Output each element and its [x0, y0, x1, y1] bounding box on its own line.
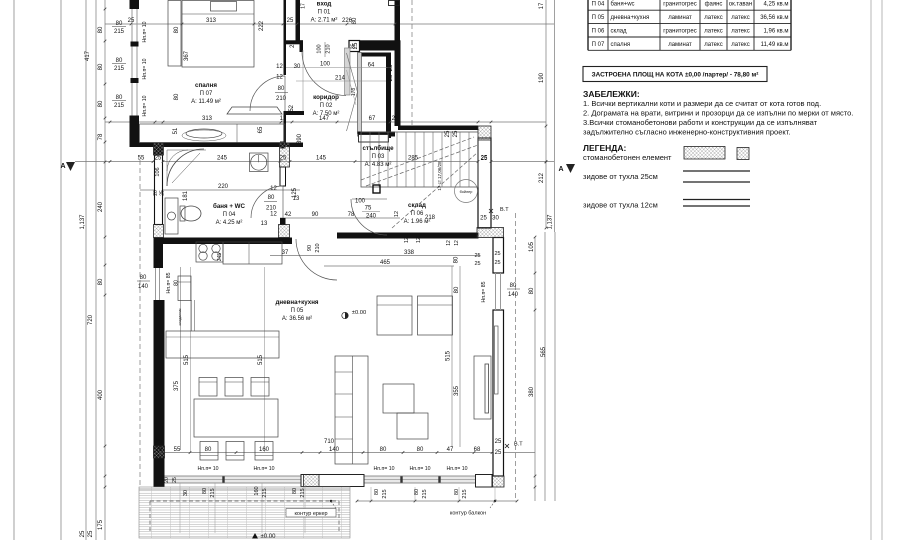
svg-text:215: 215 — [210, 488, 216, 497]
svg-text:3.Всички стоманобетонови работ: 3.Всички стоманобетонови работи и констр… — [583, 118, 818, 127]
svg-text:1,137: 1,137 — [548, 214, 554, 230]
svg-text:25: 25 — [474, 253, 480, 259]
svg-text:218: 218 — [425, 215, 436, 221]
svg-text:25: 25 — [156, 439, 163, 445]
svg-text:80: 80 — [454, 286, 460, 293]
svg-text:78: 78 — [98, 133, 104, 140]
svg-text:П 01: П 01 — [318, 10, 331, 16]
svg-text:2. Дограмата на врати, витрини: 2. Дограмата на врати, витрини и прозорц… — [583, 109, 853, 118]
svg-text:дневна+кухня: дневна+кухня — [275, 299, 318, 306]
svg-text:П 06: П 06 — [592, 29, 605, 35]
svg-text:П 02: П 02 — [320, 103, 333, 109]
svg-text:175: 175 — [98, 519, 104, 530]
svg-text:210: 210 — [326, 44, 332, 53]
svg-text:А: 4.83 м²: А: 4.83 м² — [365, 162, 392, 168]
svg-text:А: 4.25 м²: А: 4.25 м² — [216, 220, 243, 226]
svg-text:55: 55 — [174, 447, 181, 453]
svg-text:контур еркер: контур еркер — [294, 511, 327, 517]
svg-text:12: 12 — [276, 64, 283, 70]
svg-text:80: 80 — [374, 489, 380, 495]
svg-text:80: 80 — [98, 100, 104, 107]
svg-text:зидове от тухла 12см: зидове от тухла 12см — [583, 201, 658, 210]
svg-text:80: 80 — [174, 280, 180, 286]
svg-text:Нп.п= 10: Нп.п= 10 — [409, 466, 430, 472]
svg-text:25: 25 — [160, 190, 166, 196]
svg-text:25: 25 — [453, 130, 459, 137]
svg-text:215: 215 — [114, 29, 125, 35]
svg-text:140: 140 — [138, 284, 149, 290]
svg-text:36,56 кв.м: 36,56 кв.м — [760, 15, 788, 21]
svg-text:565: 565 — [541, 346, 547, 357]
svg-text:Нп.п= 10: Нп.п= 10 — [142, 58, 148, 79]
svg-text:100: 100 — [320, 62, 331, 68]
svg-text:20: 20 — [153, 190, 159, 196]
svg-text:47: 47 — [447, 447, 454, 453]
svg-text:25: 25 — [480, 216, 487, 222]
svg-text:гранитогрес: гранитогрес — [663, 2, 696, 8]
svg-text:515: 515 — [184, 354, 190, 365]
svg-text:140: 140 — [329, 447, 340, 453]
svg-text:ламинат: ламинат — [668, 15, 692, 21]
svg-text:720: 720 — [88, 314, 94, 325]
svg-text:80: 80 — [417, 447, 424, 453]
svg-text:51: 51 — [173, 127, 179, 134]
svg-text:гранитогрес: гранитогрес — [663, 29, 696, 35]
svg-text:стълбище: стълбище — [362, 145, 394, 152]
svg-text:90: 90 — [307, 245, 313, 251]
svg-text:100: 100 — [355, 199, 366, 205]
svg-text:П 04: П 04 — [223, 212, 236, 218]
svg-text:вход: вход — [317, 1, 332, 8]
svg-text:25: 25 — [155, 156, 162, 162]
svg-text:спалня: спалня — [195, 82, 217, 89]
svg-text:65: 65 — [258, 126, 264, 133]
svg-text:80: 80 — [414, 489, 420, 495]
svg-text:25: 25 — [494, 251, 500, 257]
svg-text:710: 710 — [324, 439, 335, 445]
svg-text:80: 80 — [116, 21, 123, 27]
svg-text:160: 160 — [254, 486, 260, 495]
svg-text:13: 13 — [261, 221, 268, 227]
svg-text:313: 313 — [206, 18, 217, 24]
svg-text:25: 25 — [80, 530, 86, 537]
svg-text:390: 390 — [297, 133, 303, 144]
svg-text:400: 400 — [98, 389, 104, 400]
svg-text:210: 210 — [276, 96, 287, 102]
svg-text:355: 355 — [454, 385, 460, 396]
svg-text:80: 80 — [510, 283, 517, 289]
svg-text:12: 12 — [404, 237, 410, 243]
svg-text:17: 17 — [539, 2, 545, 9]
svg-text:37: 37 — [282, 250, 289, 256]
svg-text:215: 215 — [262, 488, 268, 497]
svg-text:181: 181 — [183, 190, 189, 201]
svg-text:178: 178 — [351, 88, 357, 97]
svg-text:25: 25 — [494, 260, 500, 266]
svg-text:A: A — [60, 163, 65, 170]
svg-text:80: 80 — [116, 58, 123, 64]
svg-text:80: 80 — [529, 287, 535, 294]
svg-text:215: 215 — [382, 489, 388, 498]
svg-text:80: 80 — [454, 256, 460, 263]
svg-text:214: 214 — [335, 76, 346, 82]
svg-text:12: 12 — [454, 240, 460, 246]
svg-text:дневна+кухня: дневна+кухня — [611, 15, 650, 21]
svg-text:Нп.п= 85: Нп.п= 85 — [481, 281, 487, 302]
svg-text:515: 515 — [258, 354, 264, 365]
svg-text:контур балкон: контур балкон — [450, 511, 486, 517]
svg-text:147: 147 — [319, 116, 330, 122]
svg-text:25: 25 — [290, 41, 296, 48]
svg-text:30: 30 — [294, 64, 301, 70]
svg-text:285: 285 — [408, 156, 419, 162]
svg-text:латекс: латекс — [731, 42, 749, 48]
svg-text:12: 12 — [270, 212, 277, 218]
svg-text:17 ст 17,06/28: 17 ст 17,06/28 — [437, 161, 442, 191]
svg-text:160: 160 — [259, 447, 270, 453]
svg-text:11,49 кв.м: 11,49 кв.м — [761, 42, 789, 48]
svg-text:25: 25 — [481, 156, 488, 162]
svg-text:12: 12 — [446, 240, 452, 246]
svg-text:Нп.п= 10: Нп.п= 10 — [142, 95, 148, 116]
svg-text:105: 105 — [529, 241, 535, 252]
svg-text:1. Всички вертикални коти и ра: 1. Всички вертикални коти и размери да с… — [583, 99, 821, 108]
svg-text:215: 215 — [114, 66, 125, 72]
svg-text:106: 106 — [155, 167, 161, 176]
svg-text:222: 222 — [259, 20, 265, 31]
svg-text:задължително съгласно инженерн: задължително съгласно инженерно-конструк… — [583, 128, 790, 137]
svg-text:П 04: П 04 — [592, 2, 605, 8]
svg-text:380: 380 — [529, 386, 535, 397]
svg-text:80: 80 — [202, 488, 208, 494]
svg-text:80: 80 — [174, 93, 180, 100]
svg-text:латекс: латекс — [704, 15, 722, 21]
svg-text:75: 75 — [365, 206, 372, 212]
svg-text:4,25 кв.м: 4,25 кв.м — [764, 2, 789, 8]
svg-text:баня+wc: баня+wc — [611, 2, 635, 8]
svg-text:1,137: 1,137 — [80, 214, 86, 230]
svg-text:13: 13 — [293, 196, 300, 202]
svg-text:25: 25 — [495, 439, 502, 445]
svg-text:А: 36.56 м²: А: 36.56 м² — [282, 316, 312, 322]
svg-text:25: 25 — [392, 116, 399, 122]
svg-text:ЛЕГЕНДА:: ЛЕГЕНДА: — [583, 143, 626, 153]
svg-text:25: 25 — [388, 64, 394, 71]
svg-text:220: 220 — [218, 184, 229, 190]
svg-text:Нп.п= 10: Нп.п= 10 — [253, 466, 274, 472]
svg-text:A: A — [558, 166, 563, 173]
svg-text:80: 80 — [98, 26, 104, 33]
svg-text:417: 417 — [85, 50, 91, 61]
svg-text:коридор: коридор — [313, 94, 339, 101]
svg-text:367: 367 — [184, 50, 190, 61]
svg-text:А: 11.49 м²: А: 11.49 м² — [191, 99, 221, 105]
svg-text:12: 12 — [416, 237, 422, 243]
svg-text:Нп.п= 10: Нп.п= 10 — [142, 21, 148, 42]
svg-text:25: 25 — [287, 18, 294, 24]
svg-text:ок.таван: ок.таван — [729, 2, 752, 8]
svg-text:фаянс: фаянс — [705, 2, 723, 8]
svg-text:12: 12 — [394, 211, 400, 217]
svg-text:80: 80 — [454, 489, 460, 495]
svg-text:240: 240 — [98, 201, 104, 212]
svg-text:80: 80 — [380, 447, 387, 453]
svg-text:склад: склад — [611, 29, 628, 35]
svg-text:215: 215 — [300, 488, 306, 497]
svg-text:ЗАСТРОЕНА ПЛОЩ НА КОТА ±0,00: ЗАСТРОЕНА ПЛОЩ НА КОТА ±0,00 /партер/ - … — [592, 72, 759, 79]
svg-text:80: 80 — [268, 195, 275, 201]
svg-text:145: 145 — [316, 156, 327, 162]
svg-text:465: 465 — [380, 260, 391, 266]
svg-text:42: 42 — [285, 212, 292, 218]
svg-text:80: 80 — [292, 488, 298, 494]
svg-text:П 03: П 03 — [372, 154, 385, 160]
svg-text:1,96 кв.м: 1,96 кв.м — [764, 29, 789, 35]
svg-text:Нп.п= 10: Нп.п= 10 — [373, 466, 394, 472]
svg-text:±0.00: ±0.00 — [261, 534, 277, 540]
svg-text:25: 25 — [88, 530, 94, 537]
svg-text:30: 30 — [183, 490, 189, 496]
svg-text:17: 17 — [301, 3, 307, 9]
svg-text:515: 515 — [446, 350, 452, 361]
svg-text:В.Т: В.Т — [514, 442, 523, 448]
svg-text:хладилник: хладилник — [178, 308, 182, 326]
svg-text:215: 215 — [422, 489, 428, 498]
svg-text:78: 78 — [348, 212, 355, 218]
svg-text:67: 67 — [369, 116, 376, 122]
svg-text:Нп.п= 85: Нп.п= 85 — [166, 272, 172, 293]
svg-text:зидове от тухла 25см: зидове от тухла 25см — [583, 172, 658, 181]
svg-text:ламинат: ламинат — [668, 42, 692, 48]
svg-text:80: 80 — [278, 86, 285, 92]
svg-text:240: 240 — [366, 214, 377, 220]
svg-text:баня + WC: баня + WC — [213, 203, 246, 210]
svg-text:П 07: П 07 — [200, 91, 213, 97]
svg-text:12: 12 — [276, 75, 283, 81]
svg-text:П 07: П 07 — [592, 42, 605, 48]
svg-text:80: 80 — [98, 278, 104, 285]
svg-text:245: 245 — [217, 253, 223, 262]
svg-text:313: 313 — [202, 116, 213, 122]
svg-text:12: 12 — [270, 186, 277, 192]
svg-text:25: 25 — [353, 42, 359, 49]
svg-text:80: 80 — [352, 17, 358, 24]
svg-text:20: 20 — [164, 477, 170, 483]
svg-text:25: 25 — [155, 259, 161, 265]
svg-text:склад: склад — [408, 202, 426, 209]
svg-text:латекс: латекс — [704, 42, 722, 48]
svg-text:В.Т: В.Т — [500, 207, 509, 213]
svg-text:±0.00: ±0.00 — [352, 310, 366, 316]
svg-text:140: 140 — [508, 292, 519, 298]
svg-text:А: 2.71 м²: А: 2.71 м² — [311, 18, 338, 24]
svg-text:25: 25 — [495, 450, 502, 456]
svg-text:80: 80 — [205, 447, 212, 453]
svg-text:215: 215 — [462, 489, 468, 498]
svg-text:Нп.п= 10: Нп.п= 10 — [197, 466, 218, 472]
svg-text:375: 375 — [174, 380, 180, 391]
svg-text:338: 338 — [404, 250, 415, 256]
svg-text:бойлер: бойлер — [460, 190, 473, 194]
svg-text:215: 215 — [114, 103, 125, 109]
svg-text:Нп.п= 10: Нп.п= 10 — [446, 466, 467, 472]
svg-text:90: 90 — [312, 212, 319, 218]
svg-text:80: 80 — [98, 63, 104, 70]
svg-text:12: 12 — [280, 116, 287, 122]
svg-text:30: 30 — [492, 216, 499, 222]
svg-text:100: 100 — [317, 44, 323, 53]
svg-text:25: 25 — [388, 74, 394, 81]
svg-text:П 06: П 06 — [411, 211, 424, 217]
svg-text:латекс: латекс — [731, 15, 749, 21]
svg-text:80: 80 — [140, 275, 147, 281]
svg-text:П 05: П 05 — [592, 15, 605, 21]
svg-text:латекс: латекс — [731, 29, 749, 35]
svg-text:210: 210 — [315, 243, 321, 252]
svg-text:П 05: П 05 — [291, 308, 304, 314]
svg-text:212: 212 — [539, 172, 545, 183]
svg-text:245: 245 — [217, 156, 228, 162]
svg-text:ЗАБЕЛЕЖКИ:: ЗАБЕЛЕЖКИ: — [583, 89, 640, 99]
svg-text:80: 80 — [116, 95, 123, 101]
svg-text:стоманобетонен елемент: стоманобетонен елемент — [583, 153, 672, 162]
svg-text:190: 190 — [539, 72, 545, 83]
svg-text:латекс: латекс — [704, 29, 722, 35]
svg-text:25: 25 — [445, 130, 451, 137]
svg-text:25: 25 — [172, 477, 178, 483]
svg-text:25: 25 — [128, 18, 135, 24]
svg-text:80: 80 — [174, 26, 180, 33]
svg-text:55: 55 — [138, 156, 145, 162]
svg-text:252: 252 — [289, 104, 295, 115]
svg-text:25: 25 — [474, 261, 480, 267]
svg-text:спалня: спалня — [611, 42, 631, 48]
